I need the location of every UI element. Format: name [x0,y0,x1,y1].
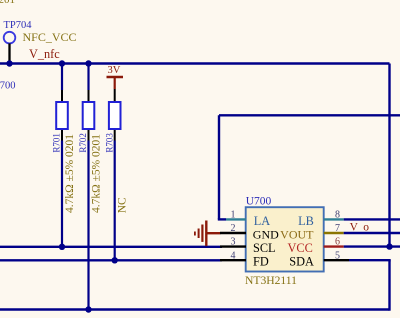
svg-text:2700: 2700 [0,81,16,92]
svg-text:VOUT: VOUT [280,227,314,241]
svg-text:6: 6 [335,237,340,248]
wire V_nfc main horizontal [0,62,390,64]
svg-text:U700: U700 [246,195,272,207]
svg-text:1: 1 [231,210,236,221]
svg-text:SCL: SCL [253,241,276,255]
wire LA to pin 1 [218,218,226,220]
wire SDA pin 5 horizontal [349,259,391,261]
power port 3V [107,77,124,89]
svg-text:VCC: VCC [288,241,313,255]
svg-text:4: 4 [231,250,236,261]
wire VOUT to right edge [344,232,400,234]
pin 3 SCL stub [220,245,246,247]
wire FD horizontal [0,259,222,261]
svg-text:FD: FD [253,255,269,269]
svg-text:7: 7 [335,223,340,234]
svg-text:3V: 3V [108,65,121,76]
wire SDA right vertical [388,260,390,311]
wire V_nfc right vertical drop to VCC [388,64,390,247]
wire R703 to FD [114,141,116,261]
pin 8 LB stub [324,218,344,220]
ground symbol [195,221,206,246]
svg-text:3: 3 [231,237,236,248]
wire ground to pin 2 [206,232,220,234]
junction R702/V_nfc [85,60,91,66]
pin 1 LA stub [226,218,246,220]
svg-text:R701: R701 [52,133,62,153]
pin 6 VCC stub [324,245,344,247]
pin 5 SDA stub [324,259,349,261]
resistor R703 [109,89,121,141]
junction R703/FD [112,257,118,263]
wire SCL horizontal [0,246,222,248]
pin 7 VOUT stub [324,232,344,234]
wire TP704 down to V_nfc [8,43,10,63]
wire LA vertical [218,115,220,219]
svg-text:R703: R703 [104,133,114,153]
svg-text:SDA: SDA [289,255,314,269]
svg-text:LB: LB [298,214,314,228]
svg-text:4.7kΩ ±5% 0201: 4.7kΩ ±5% 0201 [91,134,103,213]
svg-text:R702: R702 [78,133,88,153]
svg-text:5: 5 [335,250,340,261]
junction R701/V_nfc [59,60,65,66]
svg-text:NFC_VCC: NFC_VCC [23,30,77,44]
resistor R702 [83,90,95,141]
svg-text:4.7kΩ ±5% 0201: 4.7kΩ ±5% 0201 [64,134,76,213]
wire R702 to SDA bottom [87,141,89,310]
wire VCC to right edge [344,245,400,247]
svg-text:0201: 0201 [0,0,15,6]
wire SDA bottom horizontal [0,308,390,310]
pin 4 FD stub [220,259,246,261]
junction R702/SDA [85,306,91,312]
wire V_nfc to R702 [87,64,89,91]
pin 2 GND stub [220,232,246,234]
test point TP704 [4,32,16,44]
svg-text:2: 2 [231,223,236,234]
svg-text:GND: GND [253,227,279,241]
resistor R701 [56,90,68,141]
svg-text:V: V [350,222,359,234]
svg-text:LA: LA [254,214,271,228]
wire R701 to SCL [61,141,63,247]
junction VCC/V_nfc [386,243,392,249]
wire LB to right edge [344,218,400,220]
svg-text:o: o [363,222,369,234]
svg-text:NC: NC [117,197,129,213]
svg-text:V_nfc: V_nfc [29,47,60,61]
junction R701/SCL [59,244,65,250]
IC U700 body [246,207,324,271]
wire LA top horizontal [219,114,400,116]
wire V_nfc to R701 [61,64,63,91]
svg-text:NT3H2111: NT3H2111 [245,274,297,287]
junction TP704/V_nfc [6,60,12,66]
svg-text:8: 8 [335,210,340,221]
